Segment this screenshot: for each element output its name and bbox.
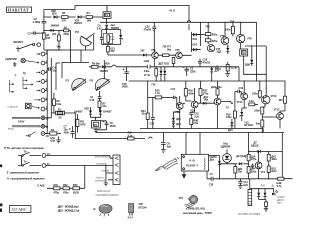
svg-text:P2: P2 bbox=[90, 79, 94, 83]
svg-text:150a: 150a bbox=[252, 92, 258, 96]
resistor R33 bbox=[73, 183, 80, 195]
svg-text:КТ805Б (П1, М1): КТ805Б (П1, М1) bbox=[186, 207, 205, 211]
ground bbox=[264, 208, 268, 211]
resistor R8 6.8k bbox=[52, 93, 61, 113]
capacitor C19 47n bbox=[198, 58, 211, 67]
svg-text:47u/16: 47u/16 bbox=[144, 28, 152, 32]
diode down 1 bbox=[257, 193, 260, 196]
svg-text:Д13: Д13 bbox=[228, 128, 233, 132]
svg-text:ВД4: ВД4 bbox=[245, 63, 250, 67]
svg-text:240V: 240V bbox=[18, 120, 25, 124]
relay contact P1 bbox=[66, 78, 87, 90]
svg-text:0.5a: 0.5a bbox=[193, 121, 198, 125]
jack pin 18 bbox=[41, 132, 49, 138]
wire F1 top to +rail bbox=[75, 6, 189, 12]
svg-text:537 ABC: 537 ABC bbox=[12, 207, 27, 212]
svg-text:5A: 5A bbox=[59, 116, 62, 120]
svg-text:1Na: 1Na bbox=[204, 98, 209, 102]
svg-text:56a: 56a bbox=[256, 122, 261, 126]
capacitor C9 bbox=[100, 30, 104, 45]
resistor R23 bbox=[148, 88, 173, 99]
diode VD5 below F1 bbox=[97, 23, 120, 30]
svg-text:2256: 2256 bbox=[190, 70, 196, 74]
svg-text:вход: вход bbox=[8, 128, 14, 131]
fuse F1 box bbox=[103, 12, 111, 19]
svg-text:ВТ142С: ВТ142С bbox=[244, 123, 253, 127]
thyristor in circle bbox=[223, 150, 232, 164]
svg-text:100n: 100n bbox=[225, 28, 231, 32]
bus wires right of pins bbox=[45, 54, 51, 134]
svg-text:C19: C19 bbox=[239, 86, 244, 90]
svg-text:1N4004: 1N4004 bbox=[51, 24, 60, 28]
capacitor C16 bbox=[122, 67, 129, 89]
wire F1 bottom chain bbox=[106, 18, 108, 24]
title box 537 ABC bbox=[9, 206, 31, 213]
relay PX motor symbol bbox=[75, 30, 95, 50]
LED with arrows bbox=[272, 193, 275, 196]
relay coil P1 box bbox=[92, 121, 101, 129]
svg-text:2к7а: 2к7а bbox=[271, 169, 277, 173]
svg-text:2Д4009F: 2Д4009F bbox=[221, 145, 231, 149]
svg-text:10a: 10a bbox=[238, 170, 243, 174]
resistor 220 bbox=[279, 96, 287, 111]
rail ПЗ y81 bbox=[129, 81, 285, 96]
svg-text:4.3n: 4.3n bbox=[249, 99, 254, 103]
relay contact P2 bbox=[90, 60, 110, 91]
svg-text:СИЛОВОЙ ШТЕПС: СИЛОВОЙ ШТЕПС bbox=[96, 193, 119, 197]
capacitor C1 bbox=[28, 31, 44, 35]
svg-text:ТІ,ТІІ - датчики тепла и перег: ТІ,ТІІ - датчики тепла и перегрева bbox=[4, 146, 44, 150]
capacitor C15 bbox=[189, 112, 199, 119]
capacitor C19b bbox=[235, 86, 244, 103]
rail y132.5 bbox=[96, 132, 284, 134]
svg-text:4 3 4: 4 3 4 bbox=[128, 215, 134, 219]
capacitor C10 bbox=[144, 22, 157, 52]
svg-text:PG500F 4: PG500F 4 bbox=[186, 164, 198, 168]
svg-text:ДБТ ПЗЗ: ДБТ ПЗЗ bbox=[159, 62, 170, 66]
svg-text:0.45: 0.45 bbox=[90, 98, 95, 102]
module ground bbox=[183, 171, 185, 174]
svg-text:Д14: Д14 bbox=[215, 68, 220, 72]
transistor package TO-3 sketch bbox=[94, 204, 113, 216]
capacitor C4a 0.45 under P2 bbox=[90, 91, 102, 102]
transistor VT10 bbox=[262, 94, 277, 107]
svg-text:Д10: Д10 bbox=[176, 117, 181, 121]
svg-text:400v: 400v bbox=[64, 130, 70, 134]
svg-text:VT6: VT6 bbox=[175, 48, 180, 52]
wire y44.5 bbox=[102, 45, 121, 47]
svg-text:620a: 620a bbox=[212, 33, 218, 37]
switch TII bbox=[18, 156, 41, 167]
svg-text:470a: 470a bbox=[63, 190, 69, 194]
transistor VT8 bbox=[220, 22, 229, 48]
svg-text:170a: 170a bbox=[203, 92, 209, 96]
switch TI bbox=[18, 150, 41, 157]
wire P2 to right bus bbox=[244, 46, 267, 96]
pin 11 bbox=[42, 162, 113, 168]
pin arrows bbox=[34, 53, 40, 100]
svg-text:56k: 56k bbox=[87, 18, 92, 22]
svg-text:150n: 150n bbox=[254, 109, 260, 113]
svg-text:D04: D04 bbox=[193, 37, 198, 41]
wire y50 collector bbox=[44, 44, 94, 63]
svg-text:C14: C14 bbox=[150, 122, 155, 126]
svg-text:470: 470 bbox=[62, 19, 67, 23]
diode VD8 bbox=[217, 45, 230, 54]
transistor VT13 bbox=[237, 81, 248, 108]
svg-text:ЗУ705Б1 ЗУ705Б2: ЗУ705Б1 ЗУ705Б2 bbox=[238, 212, 261, 216]
wire VT6 to diode cluster bbox=[182, 32, 192, 55]
wire y199.5 and resistor bbox=[259, 200, 266, 202]
resistor R2 100 vertical bbox=[43, 33, 51, 44]
wire y163.8 bbox=[219, 163, 248, 165]
svg-text:R31: R31 bbox=[54, 183, 59, 187]
diode VD4 bbox=[74, 15, 86, 25]
zener VD1 Д814 bbox=[210, 66, 220, 81]
resistor R11 625 bbox=[196, 36, 218, 50]
vertical bus x47.2 bbox=[46, 50, 48, 134]
svg-text:Тл: Тл bbox=[24, 150, 27, 154]
resistor R5 470 bbox=[62, 11, 76, 22]
svg-text:Т34: Т34 bbox=[179, 196, 184, 200]
svg-text:TП: TП bbox=[23, 72, 26, 76]
hand sketch wires bbox=[156, 157, 180, 171]
ground below R3 bbox=[56, 137, 60, 143]
svg-text:47a: 47a bbox=[102, 104, 107, 108]
wire right bus x260.5 bbox=[256, 22, 258, 81]
DIP column bbox=[248, 190, 252, 206]
svg-text:1u96: 1u96 bbox=[144, 59, 150, 63]
resistor R16 bbox=[184, 81, 194, 101]
transistor VT12 bbox=[262, 108, 285, 129]
svg-text:Ч - Ф: Ч - Ф bbox=[189, 158, 196, 162]
resistor above VT5 bbox=[211, 81, 222, 99]
svg-text:6n8: 6n8 bbox=[243, 183, 248, 187]
svg-text:VT1: VT1 bbox=[261, 170, 266, 174]
diode D41 right bbox=[236, 154, 246, 165]
sensor T arrows bbox=[10, 72, 34, 93]
wire top rail A y16.5 bbox=[44, 6, 75, 18]
svg-text:VT8: VT8 bbox=[220, 34, 225, 38]
resistor ВЗ1 2к7 bbox=[267, 166, 277, 179]
wire vertical x200.6 bbox=[200, 22, 202, 46]
capacitor C3 electrolytic bbox=[183, 67, 196, 76]
transistor VT6 bbox=[175, 48, 182, 59]
wire left drop bbox=[248, 133, 258, 179]
capacitor C5 bbox=[94, 121, 116, 133]
svg-text:47n/16: 47n/16 bbox=[203, 60, 211, 64]
svg-text:с уфлом: с уфлом bbox=[8, 104, 18, 108]
svg-text:4.7Мф: 4.7Мф bbox=[33, 20, 41, 24]
resistor R27 bbox=[199, 81, 209, 103]
zener VD7 bbox=[119, 30, 123, 45]
svg-text:10n: 10n bbox=[141, 112, 146, 116]
svg-text:2.2u: 2.2u bbox=[194, 114, 199, 118]
svg-text:PX: PX bbox=[75, 30, 79, 34]
resistor R9 56a bbox=[89, 62, 101, 69]
page edge marks bbox=[0, 165, 2, 212]
wire y29.5 bbox=[102, 29, 121, 31]
diode VD below P2 bbox=[245, 46, 253, 67]
svg-text:АДАПТЕР: АДАПТЕР bbox=[5, 57, 17, 61]
resistor 150a upper bbox=[252, 81, 261, 99]
RESET switch bbox=[14, 40, 41, 51]
resistor R8 100 bbox=[225, 20, 235, 37]
resistor R14 bbox=[128, 131, 135, 140]
diode VD1 1N4004 bbox=[51, 24, 64, 37]
mid rail y66.8 bbox=[116, 67, 239, 81]
svg-text:100a: 100a bbox=[226, 115, 232, 119]
svg-text:2D2: 2D2 bbox=[52, 12, 57, 16]
svg-text:1N4007: 1N4007 bbox=[100, 69, 109, 73]
svg-text:Е - диапазонный переключ: Е - диапазонный переключ bbox=[7, 171, 40, 175]
svg-text:0.47: 0.47 bbox=[97, 27, 102, 31]
resistor Д4З 430a bbox=[267, 151, 277, 166]
transistor VT9 bbox=[237, 22, 253, 49]
svg-text:ДВУ - ВСМ6Д С (а): ДВУ - ВСМ6Д С (а) bbox=[58, 208, 80, 212]
resistor 56k vertical bbox=[57, 30, 62, 50]
diode VD11 bbox=[138, 49, 152, 57]
ADAPTER jack bbox=[5, 57, 39, 67]
module top pins to rail bbox=[186, 133, 200, 155]
wire vertical x93.7 bbox=[93, 35, 95, 50]
svg-text:17.4u: 17.4u bbox=[144, 73, 151, 77]
svg-text:У04: У04 bbox=[52, 32, 57, 36]
transistor VT1 bbox=[151, 48, 158, 58]
resistor R32 bbox=[63, 183, 70, 195]
capacitor C20 bbox=[207, 171, 278, 187]
capacitor C2 bbox=[33, 10, 47, 33]
wire vertical from +rail with hop bbox=[187, 6, 190, 31]
transistor package TO-39 bbox=[179, 195, 213, 215]
vertical bus x51.3 bbox=[50, 58, 52, 118]
svg-text:420n: 420n bbox=[188, 92, 194, 96]
svg-text:470: 470 bbox=[110, 49, 115, 53]
wire VT1 emitter to rail bbox=[153, 58, 155, 67]
svg-text:C18: C18 bbox=[209, 183, 214, 187]
svg-text:VT1: VT1 bbox=[151, 48, 156, 52]
transistor VT7 bbox=[207, 45, 221, 52]
svg-text:монтажная цепь - ТУ805: монтажная цепь - ТУ805 bbox=[183, 211, 212, 215]
svg-text:-С АКБ: -С АКБ bbox=[37, 184, 45, 188]
diode VD3 down bbox=[74, 106, 92, 117]
svg-text:2Д10Б: 2Д10Б bbox=[251, 143, 259, 147]
svg-text:1N4007: 1N4007 bbox=[103, 109, 112, 113]
svg-text:ПЗ: ПЗ bbox=[152, 83, 156, 87]
diode pair down bbox=[160, 67, 167, 81]
series capacitor in rail bbox=[144, 59, 151, 69]
transistor VT14 bbox=[255, 162, 265, 174]
svg-text:(кр): (кр) bbox=[277, 201, 281, 205]
wire battery chain bbox=[47, 166, 85, 189]
svg-text:2Д2: 2Д2 bbox=[217, 50, 222, 54]
svg-text:56а: 56а bbox=[57, 45, 62, 49]
svg-text:470a: 470a bbox=[54, 190, 60, 194]
svg-text:зелёный: зелёный bbox=[95, 178, 106, 182]
svg-text:VD3: VD3 bbox=[84, 106, 89, 110]
resistor R7 47a bbox=[98, 101, 107, 112]
resistor R25 bbox=[158, 54, 176, 57]
svg-text:VT13: VT13 bbox=[237, 100, 243, 104]
svg-text:1N4007: 1N4007 bbox=[74, 21, 83, 25]
small cap at VT base bbox=[251, 164, 254, 169]
diode D04 bbox=[192, 33, 201, 41]
resistor R11 bbox=[76, 114, 86, 133]
svg-text:14/50: 14/50 bbox=[122, 85, 129, 89]
relay coil P2 box bbox=[240, 49, 248, 56]
diode D13 down bbox=[228, 119, 233, 132]
title box HABITAT bbox=[7, 7, 32, 12]
svg-text:HABITAT: HABITAT bbox=[8, 8, 29, 12]
svg-text:6.8a: 6.8a bbox=[50, 139, 55, 143]
svg-text:R32: R32 bbox=[63, 183, 68, 187]
wire y120.3 bbox=[91, 117, 107, 130]
svg-text:170a: 170a bbox=[251, 157, 257, 161]
svg-text:Д6х: Д6х bbox=[210, 158, 215, 162]
svg-text:Д16a 10a: Д16a 10a bbox=[211, 85, 222, 89]
svg-text:У32: У32 bbox=[139, 202, 144, 206]
svg-text:R33: R33 bbox=[73, 183, 78, 187]
svg-text:200а: 200а bbox=[63, 32, 69, 36]
resistor R21 470 bbox=[107, 46, 138, 55]
capacitor C7 bbox=[64, 125, 75, 138]
svg-text:ЛБ1: ЛБ1 bbox=[261, 184, 266, 188]
capacitor C4 bbox=[47, 66, 57, 73]
diode D14 bbox=[198, 95, 215, 105]
svg-text:C13: C13 bbox=[171, 87, 176, 91]
transistor VT5 bbox=[214, 98, 221, 128]
svg-text:16/50: 16/50 bbox=[110, 124, 117, 128]
resistor 150n lower bbox=[254, 107, 265, 120]
resistor 17.4u vertical bbox=[144, 67, 158, 81]
svg-text:VT9: VT9 bbox=[247, 36, 252, 40]
diode VD2 bbox=[51, 9, 61, 18]
resistor R24 bbox=[141, 81, 149, 129]
fuse F2 5A bbox=[51, 107, 75, 130]
svg-text:10u: 10u bbox=[52, 69, 57, 73]
pin 10 bbox=[42, 152, 113, 158]
mains switch bbox=[26, 132, 36, 137]
svg-text:VT12: VT12 bbox=[274, 108, 280, 112]
svg-text:4270: 4270 bbox=[80, 123, 86, 127]
svg-text:1.4a: 1.4a bbox=[155, 91, 160, 95]
svg-text:ВТ134г: ВТ134г bbox=[139, 206, 148, 210]
svg-text:D01: D01 bbox=[193, 43, 198, 47]
resistor R0B bbox=[190, 118, 199, 129]
cluster T12 labels bbox=[221, 102, 237, 129]
diode VD6 bbox=[100, 61, 112, 72]
svg-text:В: В bbox=[94, 207, 96, 211]
diode VD4 down bbox=[99, 108, 112, 118]
resistor R20 bbox=[234, 164, 243, 179]
wire second row y26.5 bbox=[44, 29, 51, 31]
svg-text:P1: P1 bbox=[66, 79, 70, 83]
wire hop crossing bbox=[112, 65, 117, 67]
svg-text:4u8: 4u8 bbox=[167, 144, 172, 148]
capacitor C6 with ground bbox=[161, 133, 171, 153]
svg-text:220: 220 bbox=[279, 98, 284, 102]
vertical bus x56 bbox=[55, 63, 57, 90]
svg-text:91/10: 91/10 bbox=[73, 190, 80, 194]
rail y138.5 bbox=[75, 130, 152, 139]
wire module out y156.2 bbox=[209, 154, 220, 156]
svg-text:Н - сульфированный переключ: Н - сульфированный переключ bbox=[7, 177, 45, 181]
transistor VT4 bbox=[183, 88, 198, 112]
resistor R31 bbox=[54, 183, 61, 195]
svg-text:6.8a: 6.8a bbox=[56, 102, 61, 106]
rail y22.3 top bbox=[100, 21, 257, 23]
svg-text:100: 100 bbox=[46, 36, 51, 40]
svg-text:625a: 625a bbox=[212, 39, 218, 43]
resistor R4B 4.7k bbox=[277, 133, 293, 189]
svg-text:R9 56n: R9 56n bbox=[92, 62, 100, 66]
svg-text:220a: 220a bbox=[251, 169, 257, 173]
capacitor C21 with ground bbox=[238, 179, 248, 189]
svg-text:22.3u: 22.3u bbox=[231, 66, 238, 70]
wire bus top to relay box bbox=[47, 50, 62, 63]
relay frame box bbox=[62, 63, 89, 79]
diode down 2 bbox=[264, 193, 267, 196]
resistor Д4Д 170a bbox=[247, 151, 257, 166]
resistor R10 620 bbox=[196, 22, 218, 36]
mains 240V arrows bbox=[8, 117, 41, 131]
capacitor C14 bbox=[150, 97, 155, 128]
svg-text:Д13 (ЕД): Д13 (ЕД) bbox=[236, 154, 246, 158]
resistor R4 56k bbox=[86, 11, 103, 22]
svg-text:ЗИЛАН НО: ЗИЛАН НО bbox=[97, 189, 110, 193]
diode down near module bbox=[218, 155, 221, 178]
connector pins 1-7 bbox=[41, 51, 48, 111]
transistor VT3 bbox=[175, 96, 183, 129]
phone jack bbox=[8, 103, 40, 108]
resistor 22.3u with ground bbox=[216, 62, 238, 76]
svg-text:-48 B: -48 B bbox=[168, 9, 175, 13]
svg-text:440a: 440a bbox=[144, 69, 150, 73]
svg-text:ДВУ - ВСМ6Д (пр): ДВУ - ВСМ6Д (пр) bbox=[58, 205, 79, 209]
svg-text:коричневый: коричневый bbox=[95, 154, 110, 158]
resistor R3 bbox=[45, 128, 61, 142]
diode D7 bbox=[248, 150, 282, 153]
svg-text:4.7а: 4.7а bbox=[277, 184, 282, 188]
rail y128.5 amp bottom bbox=[140, 129, 263, 133]
diode pair D10 D16 bbox=[172, 112, 181, 129]
zener VD stabilizer bbox=[240, 108, 254, 127]
svg-text:56a: 56a bbox=[167, 48, 172, 52]
connector pins 16,17 (mains) bbox=[41, 116, 49, 129]
svg-text:430a: 430a bbox=[271, 157, 277, 161]
transistor package TO-126 bbox=[128, 202, 148, 220]
resistor R6 200k bbox=[63, 25, 70, 62]
svg-text:VT10: VT10 bbox=[271, 94, 277, 98]
svg-text:ПИ: ПИ bbox=[230, 20, 234, 24]
capacitor C13 bbox=[171, 87, 177, 99]
svg-text:BKΛЮЧ: BKΛЮЧ bbox=[14, 40, 24, 44]
resistor 4.3n horizontal bbox=[249, 99, 258, 106]
resistor 56a lower bbox=[256, 120, 264, 133]
diode D01 bbox=[192, 43, 201, 52]
resistor Д44 220a bbox=[247, 167, 257, 179]
svg-text:Д16: Д16 bbox=[176, 122, 181, 126]
svg-text:5.1a: 5.1a bbox=[128, 133, 133, 137]
resistor vertical x173.5 bbox=[172, 58, 175, 68]
module PG500F box bbox=[181, 154, 208, 171]
boxed resistor R17 bbox=[103, 30, 115, 45]
svg-text:2k7: 2k7 bbox=[141, 49, 146, 53]
svg-text:VD6: VD6 bbox=[105, 61, 110, 65]
